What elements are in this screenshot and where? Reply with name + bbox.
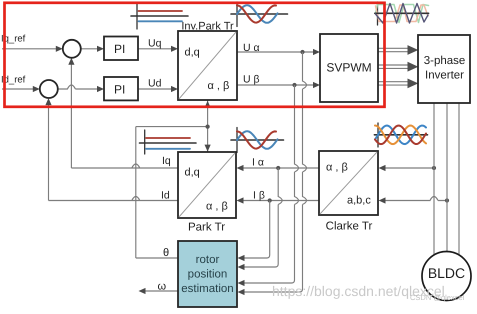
svg-text:Inverter: Inverter: [425, 70, 464, 82]
icon: PWM waveforms graph (above inverter): [375, 2, 429, 25]
wire omega output: [145, 290, 178, 292]
svg-text:3-phase: 3-phase: [424, 55, 466, 67]
svg-text:Clarke Tr: Clarke Tr: [326, 221, 373, 233]
wire Iq_ref input: [2, 48, 57, 50]
svg-text:rotor: rotor: [196, 254, 220, 266]
svg-text:α , β: α , β: [206, 201, 228, 213]
wire Id feedback: Park Tr to summing2 (hop over theta riser): [49, 197, 179, 201]
icon: 3-phase sine graph (above Clarke Tr): [374, 123, 427, 147]
junction I alpha: [276, 166, 280, 170]
svg-text:U α: U α: [243, 42, 260, 54]
wire I alpha: Clarke to Park: [243, 167, 319, 169]
icon: alpha-beta sine graph (middle, right of Park Tr): [231, 128, 284, 153]
svg-text:α , β: α , β: [326, 162, 348, 174]
wire U alpha to estimator (hops over U beta, I alpha, I beta lines): [303, 52, 307, 240]
block PI (d axis): [104, 77, 138, 100]
wire U beta to estimator (hops over I alpha, I beta lines): [295, 85, 299, 240]
svg-text:I β: I β: [253, 190, 265, 202]
wire I beta to estimator: [244, 201, 270, 259]
junction U alpha: [300, 50, 304, 54]
svg-text:Park Tr: Park Tr: [188, 222, 225, 234]
block SVPWM: [320, 34, 378, 102]
junction U beta: [292, 83, 296, 87]
wire I beta: Clarke to Park: [243, 200, 319, 202]
motor BLDC: [422, 252, 471, 301]
junction theta: [206, 125, 210, 129]
block PI (q axis): [104, 37, 138, 61]
svg-text:SVPWM: SVPWM: [326, 61, 371, 75]
wire Ud: PI2 to Inv.Park: [138, 88, 173, 90]
block rotor position estimation: [178, 241, 237, 307]
svg-text:CSDN @qlexcel: CSDN @qlexcel: [410, 293, 465, 302]
wire motor phase c: [458, 103, 460, 256]
icon: d-q constant-value graph (top): [131, 3, 188, 29]
svg-text:Id: Id: [161, 190, 170, 202]
wire motor phase b: [446, 103, 448, 253]
svg-text:I α: I α: [252, 157, 264, 169]
wire summing1 to PI1: [81, 48, 98, 50]
svg-text:BLDC: BLDC: [428, 265, 465, 281]
icon: d-q constant-value graph (middle, above Park Tr): [140, 130, 197, 154]
svg-text:PI: PI: [114, 83, 125, 97]
wire Id_ref input: [2, 88, 34, 90]
bus wire pair SVPWM to inverter y=66.7: [378, 64, 408, 66]
block Clarke Tr: [319, 151, 378, 215]
svg-text:d,q: d,q: [185, 47, 200, 59]
svg-text:position: position: [188, 269, 228, 281]
summing junction 2 (Id loop): [40, 80, 58, 98]
svg-text:θ: θ: [163, 247, 169, 259]
junction I beta: [268, 198, 272, 202]
icon: alpha-beta sine graph (top): [231, 2, 288, 27]
bus wire pair SVPWM to inverter y=50: [378, 47, 408, 49]
wire U alpha: Inv.Park to SVPWM: [237, 51, 315, 53]
wire Uq: PI1 to Inv.Park: [137, 48, 173, 50]
svg-text:ω: ω: [158, 281, 167, 293]
wire summing2 to PI2 (hop over Iq feedback riser): [58, 85, 98, 89]
svg-text:Uq: Uq: [148, 38, 162, 50]
block Inv.Park Tr: [178, 31, 237, 100]
block Park Tr: [178, 152, 236, 218]
svg-text:estimation: estimation: [181, 283, 233, 295]
wire phase b tap to Clarke (hop over phase a line): [385, 197, 447, 201]
bus wire pair SVPWM to inverter y=83.4: [378, 81, 408, 83]
red annotation rectangle: [5, 3, 385, 107]
svg-text:a,b,c: a,b,c: [347, 195, 371, 207]
wire I alpha to estimator (hop over I beta line): [278, 168, 282, 240]
wire phase a tap to Clarke: [385, 167, 434, 169]
svg-text:α , β: α , β: [208, 80, 230, 92]
wire Iq feedback: Park Tr to summing1 (hop over theta riser): [71, 164, 178, 168]
svg-text:U β: U β: [243, 74, 260, 86]
svg-text:Iq: Iq: [162, 155, 171, 167]
wire theta: estimator to Park/Inv.Park transforms: [136, 257, 178, 259]
svg-text:Ud: Ud: [148, 78, 162, 90]
summing junction 1 (Iq loop): [63, 40, 81, 58]
wire U beta: Inv.Park to SVPWM: [237, 84, 315, 86]
block 3-phase Inverter: [418, 35, 470, 103]
svg-text:Inv.Park Tr: Inv.Park Tr: [181, 21, 234, 33]
wire motor phase a: [433, 103, 435, 256]
svg-text:d,q: d,q: [185, 167, 200, 179]
svg-text:PI: PI: [114, 42, 125, 56]
